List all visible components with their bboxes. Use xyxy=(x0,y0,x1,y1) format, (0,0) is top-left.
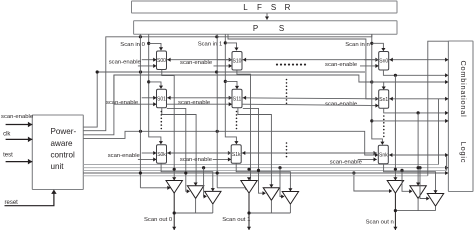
ellipsis vertical mid upper xyxy=(286,79,288,81)
wire T2 T3 outputs merge groupn xyxy=(417,198,419,210)
svg-text:scan-enable: scan-enable xyxy=(325,62,358,68)
wires scan-enable into Sn0 xyxy=(364,59,379,61)
ellipsis horizontal row1 xyxy=(276,64,278,66)
buffer T2 group0 xyxy=(187,186,203,199)
wire right riser top xyxy=(428,41,449,176)
buffer T2 groupn xyxy=(410,186,426,199)
wires scan-enable into Snk xyxy=(362,152,377,154)
junction scan out groupn xyxy=(394,209,397,212)
wire col1 feed S10 xyxy=(225,43,236,50)
junction row3 feed col0 xyxy=(139,130,142,133)
wire enable T2 groupn xyxy=(400,169,403,172)
ellipsis vertical coln xyxy=(383,115,385,117)
wire col0 feed S01 xyxy=(149,82,161,88)
wire enable T2 group1 xyxy=(243,108,265,193)
wire coln feed Sn1 xyxy=(372,82,384,89)
svg-text:Scan out n: Scan out n xyxy=(366,220,394,226)
svg-text:scan-enable: scan-enable xyxy=(180,60,213,66)
wire row2 lower scan-enable distribution xyxy=(113,75,115,104)
svg-text:scan-enable: scan-enable xyxy=(1,114,34,120)
scan cell Snk xyxy=(378,145,388,164)
svg-text:test: test xyxy=(3,153,13,159)
wire col0 scan-in vertical xyxy=(149,34,161,143)
wire Sn1 drop to buffer xyxy=(417,113,419,186)
scan cell Sn0 xyxy=(379,52,389,71)
wire test input xyxy=(6,161,33,163)
junction col0 scanin row1 xyxy=(147,42,150,45)
wire col1 scan-in vertical xyxy=(225,34,236,143)
svg-text:clk: clk xyxy=(3,131,11,137)
wire coln scan-in vertical xyxy=(372,34,383,144)
buffer T3 group0 xyxy=(205,191,221,204)
bus line 5 xyxy=(83,175,428,177)
svg-text:Combinational: Combinational xyxy=(459,60,468,117)
wire S01 output xyxy=(162,108,196,186)
bus line 1 xyxy=(83,164,438,166)
wires scan-enable into S1k xyxy=(217,152,232,154)
ellipsis vertical mid lower xyxy=(286,142,288,144)
ellipsis vertical col0 xyxy=(161,111,163,113)
junction Sn1 output drop xyxy=(417,111,420,114)
scan cell S01 xyxy=(157,89,167,108)
wire S0k output xyxy=(161,163,213,191)
wire col0 T1 enable xyxy=(140,187,170,189)
junction T1 input bus groupn xyxy=(394,168,397,171)
svg-text:P: P xyxy=(253,24,258,33)
junction row3 feed col1 xyxy=(216,130,219,133)
svg-text:Scan in 0: Scan in 0 xyxy=(120,42,145,48)
PS (phase shifter) box xyxy=(134,21,397,34)
wire col1 T1 enable xyxy=(217,187,248,189)
junction col0 scanin row2 xyxy=(147,80,150,83)
wire col1 clock vertical xyxy=(216,34,218,188)
arrowheads buffer inputs groupn xyxy=(393,177,397,180)
svg-text:Snk: Snk xyxy=(379,152,388,158)
svg-text:Sn0: Sn0 xyxy=(379,59,388,65)
wire enable T3 groupn xyxy=(418,166,421,169)
svg-text:S10: S10 xyxy=(233,59,242,65)
svg-text:Scan out 1: Scan out 1 xyxy=(222,217,250,223)
svg-text:S11: S11 xyxy=(233,96,242,102)
wire enable T3 group0 xyxy=(202,166,205,169)
wire coln feed Sn0 xyxy=(372,43,384,50)
bus line 4 xyxy=(83,172,446,174)
wire reset input xyxy=(5,191,54,206)
scan cell S00 xyxy=(157,51,167,70)
svg-text:R: R xyxy=(285,3,291,12)
svg-text:Scan out 0: Scan out 0 xyxy=(144,217,173,223)
wire coln tap to comb xyxy=(372,120,449,122)
junction scan out group0 xyxy=(173,211,176,214)
junction L1 col1 xyxy=(215,35,218,38)
scan cell S11 xyxy=(232,89,242,108)
svg-text:F: F xyxy=(257,3,262,12)
wire clk input xyxy=(6,138,33,140)
scan cell S0k xyxy=(157,145,167,164)
svg-text:scan-enable: scan-enable xyxy=(178,100,211,106)
svg-text:Power-: Power- xyxy=(51,127,77,136)
buffer T3 group1 xyxy=(282,192,298,205)
wire PS drop line2 xyxy=(228,34,378,99)
junction row2 upper riser xyxy=(96,70,99,73)
LFSR box xyxy=(132,1,398,13)
svg-text:scan-enable: scan-enable xyxy=(106,100,139,106)
wire Sn1 output xyxy=(384,108,446,113)
wire scan-enable row1 net xyxy=(167,59,233,61)
arrowheads buffer inputs group1 xyxy=(247,177,251,180)
wires scan-enable into S10 xyxy=(217,59,232,61)
junction col1 scanin row2 xyxy=(224,80,227,83)
junction T1 enable group1 bus xyxy=(216,171,219,174)
buffer T2 group1 xyxy=(263,188,279,201)
svg-text:scan-enable: scan-enable xyxy=(109,59,142,65)
svg-text:scan-enable: scan-enable xyxy=(108,153,141,159)
wire enable T3 group1 xyxy=(278,166,281,169)
arrowheads buffer inputs group0 xyxy=(172,177,176,180)
wire enable T2 group0 xyxy=(167,108,189,191)
wire col1 feed S11 xyxy=(225,81,237,88)
wire S11 output xyxy=(238,108,272,187)
buffer T1 groupn xyxy=(387,181,403,194)
svg-text:Scan in n: Scan in n xyxy=(345,42,370,48)
svg-text:S00: S00 xyxy=(157,58,166,64)
wire control out2 L1 net xyxy=(83,34,372,131)
scan cell Sn1 xyxy=(379,90,389,109)
svg-text:scan-enable: scan-enable xyxy=(330,159,363,165)
wire Snk output xyxy=(384,164,436,193)
buffer T3 groupn xyxy=(427,194,443,207)
junction col1 scanin row1 xyxy=(224,41,227,44)
wire LFSR to PS arrow xyxy=(266,13,268,20)
wire scan-enable input xyxy=(6,124,33,126)
junction row2 upper col1 xyxy=(215,70,218,73)
wire T2 T3 outputs merge group0 xyxy=(195,198,197,213)
svg-text:S1k: S1k xyxy=(232,152,241,158)
svg-text:control: control xyxy=(51,151,75,160)
buffer T1 group1 xyxy=(241,181,257,194)
svg-text:Sn1: Sn1 xyxy=(379,97,388,103)
svg-text:unit: unit xyxy=(51,162,65,171)
wire S1k output xyxy=(236,163,290,191)
junction T1 input bus group1 xyxy=(247,168,250,171)
wire scan out group1 xyxy=(248,193,250,230)
bus line 3 xyxy=(83,169,446,171)
wires scan-enable into S01 xyxy=(142,97,157,99)
wire scan out group0 xyxy=(173,193,175,230)
junction row2 upper col0 xyxy=(139,70,142,73)
wire scan-enable row2 net xyxy=(167,97,233,99)
wire scan-enable row3 net xyxy=(167,152,232,154)
bus line 2 xyxy=(83,167,446,169)
ellipsis vertical col1 xyxy=(236,111,238,113)
wire row2 upper net xyxy=(97,71,365,73)
wire S00 output xyxy=(162,70,174,181)
junction T1 enable group0 bus xyxy=(139,171,142,174)
svg-text:aware: aware xyxy=(51,139,74,148)
wire S10 output xyxy=(237,70,251,180)
svg-text:reset: reset xyxy=(5,200,19,206)
svg-text:S01: S01 xyxy=(157,96,166,102)
wires scan-enable into S11 xyxy=(217,97,232,99)
wires scan-enable into S00 xyxy=(142,59,157,61)
junction T1 input bus group0 xyxy=(173,168,176,171)
wire Sn0 drop to buffer xyxy=(394,75,396,180)
wire Sn0 output xyxy=(383,70,445,75)
buffer T1 group0 xyxy=(166,181,182,194)
wire control out3 H2 net xyxy=(83,75,446,135)
svg-text:L: L xyxy=(243,3,248,12)
wire control out4 row3 feed xyxy=(83,131,377,155)
scan cell S10 xyxy=(232,52,242,71)
wire right riser mid xyxy=(438,99,440,165)
svg-text:S0k: S0k xyxy=(157,152,166,158)
junction coln tap row2 xyxy=(370,119,373,122)
junction coln scanin row1 xyxy=(370,42,373,45)
svg-text:Logic: Logic xyxy=(459,142,468,163)
wire T1 enable coln from bus xyxy=(352,171,355,174)
combinational logic box xyxy=(448,41,473,192)
svg-text:S: S xyxy=(279,24,284,33)
svg-text:Scan in 1: Scan in 1 xyxy=(198,41,223,47)
junction scan out group1 xyxy=(247,211,250,214)
junction L1 col0 xyxy=(139,35,142,38)
svg-text:S: S xyxy=(271,3,276,12)
wire right riser low xyxy=(446,155,448,170)
wire control out1 riser xyxy=(83,72,97,127)
junction H2 coln xyxy=(370,80,373,83)
wire scan out groupn xyxy=(394,193,396,230)
wire T2 T3 outputs merge group1 xyxy=(270,200,272,213)
junction Sn0 output drop xyxy=(394,74,397,77)
scan cell S1k xyxy=(231,145,241,164)
wire col0 clock vertical xyxy=(139,34,141,188)
power-aware control unit box xyxy=(32,115,83,190)
wires scan-enable into S0k xyxy=(142,152,157,154)
wire col0 feed S00 xyxy=(149,43,161,49)
